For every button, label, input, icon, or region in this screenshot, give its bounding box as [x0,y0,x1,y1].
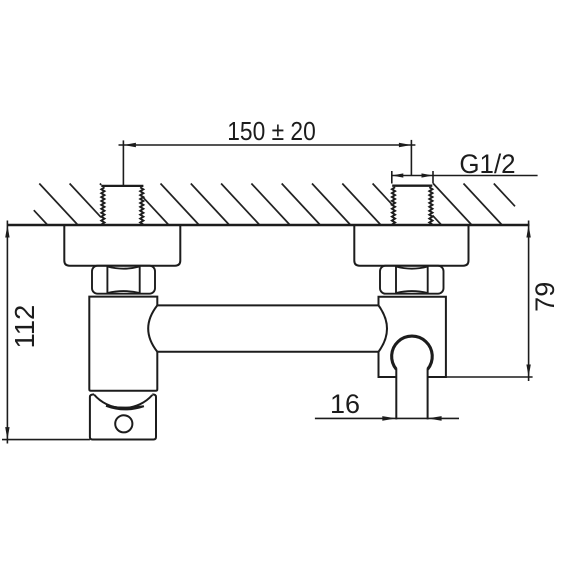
left body cylinder [89,297,157,391]
right body (shower holder block) [379,297,446,377]
dimension 112 (left vertical) [2,221,90,444]
wall surface line [8,224,530,227]
bar end curve into right body [379,305,388,351]
drop pipe below holder [396,369,427,419]
bracket crescent [106,406,144,410]
right pipe nipple G1/2 [392,186,433,225]
left flange escutcheon [64,225,180,266]
bracket screw hole [115,415,132,432]
dimension 150 +/- 20 [119,140,416,186]
svg-text:150 ± 20: 150 ± 20 [227,118,316,146]
right flange escutcheon [354,225,468,266]
left pipe nipple G1/2 [101,186,143,225]
handset holder ring [392,336,433,369]
dimension 16 (drop pipe) [315,417,459,419]
shower bar (horizontal pipe) [157,305,378,351]
bracket dome arc [94,395,152,408]
dimension 79 (right vertical) [446,221,533,382]
svg-text:16: 16 [330,389,360,419]
svg-text:79: 79 [530,282,560,312]
wall hatching [34,184,515,225]
bar end curve into left body [148,305,157,351]
svg-text:G1/2: G1/2 [459,149,515,179]
svg-text:112: 112 [9,305,40,349]
dimension G1/2 thread callout [392,171,538,184]
right hex nut [380,266,444,294]
left lower bracket [90,394,156,439]
left hex nut [92,266,155,294]
